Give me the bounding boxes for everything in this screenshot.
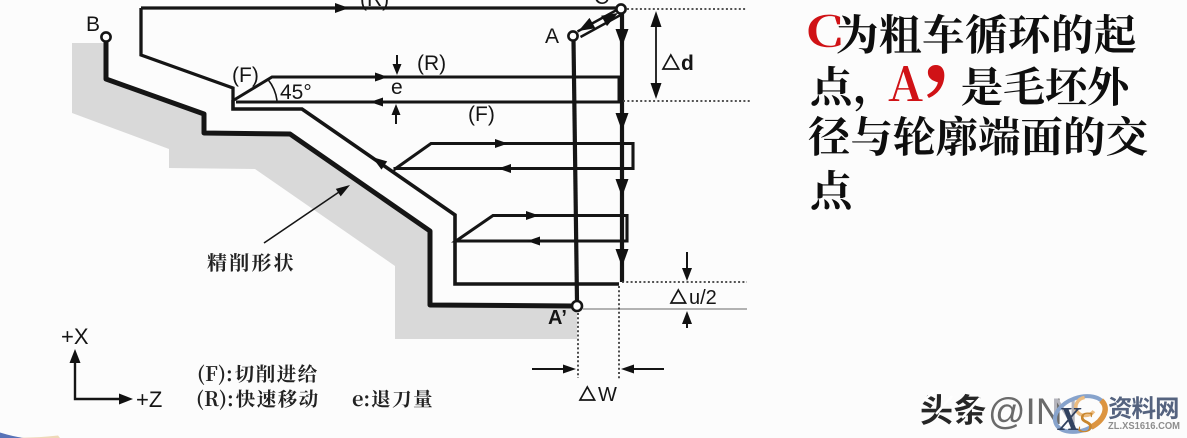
gray shadow of workpiece blank — [72, 43, 577, 339]
svg-text:A: A — [545, 25, 559, 48]
svg-text:e: e — [391, 76, 403, 99]
coordinate axes +X +Z — [75, 355, 127, 399]
watermark: ziliao wang text — [1109, 396, 1132, 419]
label finishing-shape (jing xiao xing zhuang) — [207, 253, 226, 272]
dotted extension at first pass depth — [623, 100, 750, 102]
svg-text:B: B — [86, 13, 100, 36]
delta-W arrows — [532, 368, 570, 370]
wire: cycle start vertical from C with step-down arrows — [620, 12, 624, 282]
watermark: toutiao handle text — [921, 394, 951, 425]
e dimension arrows — [396, 55, 398, 68]
svg-text:A’: A’ — [548, 307, 567, 329]
label delta-u/2 — [671, 290, 686, 303]
svg-text:u/2: u/2 — [689, 287, 717, 309]
wire: pass-2 cut loop — [395, 144, 633, 170]
wire: pass-3 cut loop — [456, 216, 627, 242]
finished profile contour B to A-prime (thick) — [106, 42, 572, 306]
svg-text:45°: 45° — [280, 81, 312, 104]
svg-text:S: S — [1078, 406, 1093, 438]
45 degree arc at retract corner — [268, 80, 277, 101]
thin line at A-prime level — [583, 308, 747, 310]
svg-text:(R): (R) — [360, 0, 389, 11]
wire: left vertical and diagonal approach — [141, 8, 233, 100]
right text line 2 — [811, 66, 850, 106]
delta-d dimension arrow — [655, 18, 657, 92]
double line link between A and C — [578, 9, 622, 37]
wire: vertical from A down to A-prime — [574, 40, 578, 301]
dotted extension from C level — [627, 8, 747, 10]
right text line 3 — [809, 116, 849, 156]
watermark logo ellipse swirl — [1050, 390, 1110, 438]
dotted vertical at delta-W right — [618, 286, 620, 380]
legend (R) rapid traverse — [198, 390, 203, 411]
svg-text:+Z: +Z — [136, 387, 162, 412]
node B circle — [101, 32, 110, 41]
legend (F) cutting feed — [199, 365, 204, 386]
wire: pass-1 rapid (R) line with e retract — [234, 77, 619, 102]
right text line 1: C is rough cycle start — [809, 15, 841, 48]
node A circle — [568, 31, 577, 40]
svg-text:(F): (F) — [468, 103, 495, 126]
svg-text:ZL.XS1616.COM: ZL.XS1616.COM — [1108, 420, 1180, 432]
node A-prime circle — [572, 301, 582, 311]
svg-text:(R): (R) — [417, 52, 446, 75]
svg-text:d: d — [681, 52, 694, 75]
dotted vertical below A-prime — [577, 313, 579, 378]
svg-text:C: C — [594, 0, 609, 9]
annotation arrow to finished profile — [264, 190, 342, 243]
bottom-left corner logo arc fragment — [0, 431, 24, 438]
wire: top rapid (R) line to C — [141, 6, 617, 9]
svg-text:+X: +X — [61, 324, 89, 349]
node C circle — [616, 4, 625, 13]
dotted line at last pass depth — [622, 281, 747, 283]
legend e retract amount — [353, 395, 363, 406]
right text line 4 — [811, 170, 850, 210]
delta-u/2 arrows — [686, 252, 688, 274]
label delta-W — [580, 387, 595, 400]
svg-text:(F): (F) — [232, 64, 259, 87]
svg-text:W: W — [598, 384, 617, 406]
label delta-d — [663, 55, 679, 69]
wire: contour-parallel finishing allowance path — [233, 100, 619, 284]
